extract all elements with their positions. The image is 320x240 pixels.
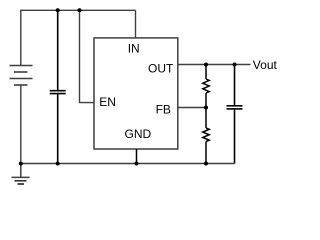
wire bottom rail xyxy=(21,163,235,165)
wire GND drop from IC to bottom rail xyxy=(136,149,138,164)
node junction top rail EN xyxy=(78,8,82,12)
wire OUT xyxy=(178,64,251,66)
wire battery bottom xyxy=(20,85,22,164)
wire EN branch xyxy=(80,10,95,102)
resistor R1 xyxy=(203,65,209,108)
capacitor C2 output branch xyxy=(227,65,243,164)
svg-text:EN: EN xyxy=(99,95,116,109)
wire IN drop from top rail to IC xyxy=(135,10,137,38)
battery BT1 xyxy=(10,66,33,86)
node junction OUT C2 xyxy=(233,63,237,67)
node junction top rail C1 xyxy=(56,8,60,12)
wire battery top xyxy=(20,10,22,66)
resistor R2 xyxy=(203,108,209,164)
svg-text:IN: IN xyxy=(128,41,140,55)
svg-text:FB: FB xyxy=(156,103,171,117)
svg-text:OUT: OUT xyxy=(148,62,174,76)
node junction bottom rail R2 xyxy=(204,162,208,166)
node junction FB R2 xyxy=(204,106,208,110)
svg-text:GND: GND xyxy=(125,127,152,141)
wire FB xyxy=(178,107,206,109)
node junction bottom rail battery xyxy=(19,162,23,166)
node junction OUT R1 xyxy=(204,63,208,67)
capacitor C1 input branch xyxy=(50,10,66,163)
svg-text:Vout: Vout xyxy=(253,58,278,72)
ground symbol xyxy=(12,164,30,185)
wire top rail xyxy=(21,9,136,11)
op IC U1 body xyxy=(94,38,178,149)
node junction bottom rail C1 xyxy=(56,162,60,166)
node junction bottom rail GND xyxy=(135,162,139,166)
